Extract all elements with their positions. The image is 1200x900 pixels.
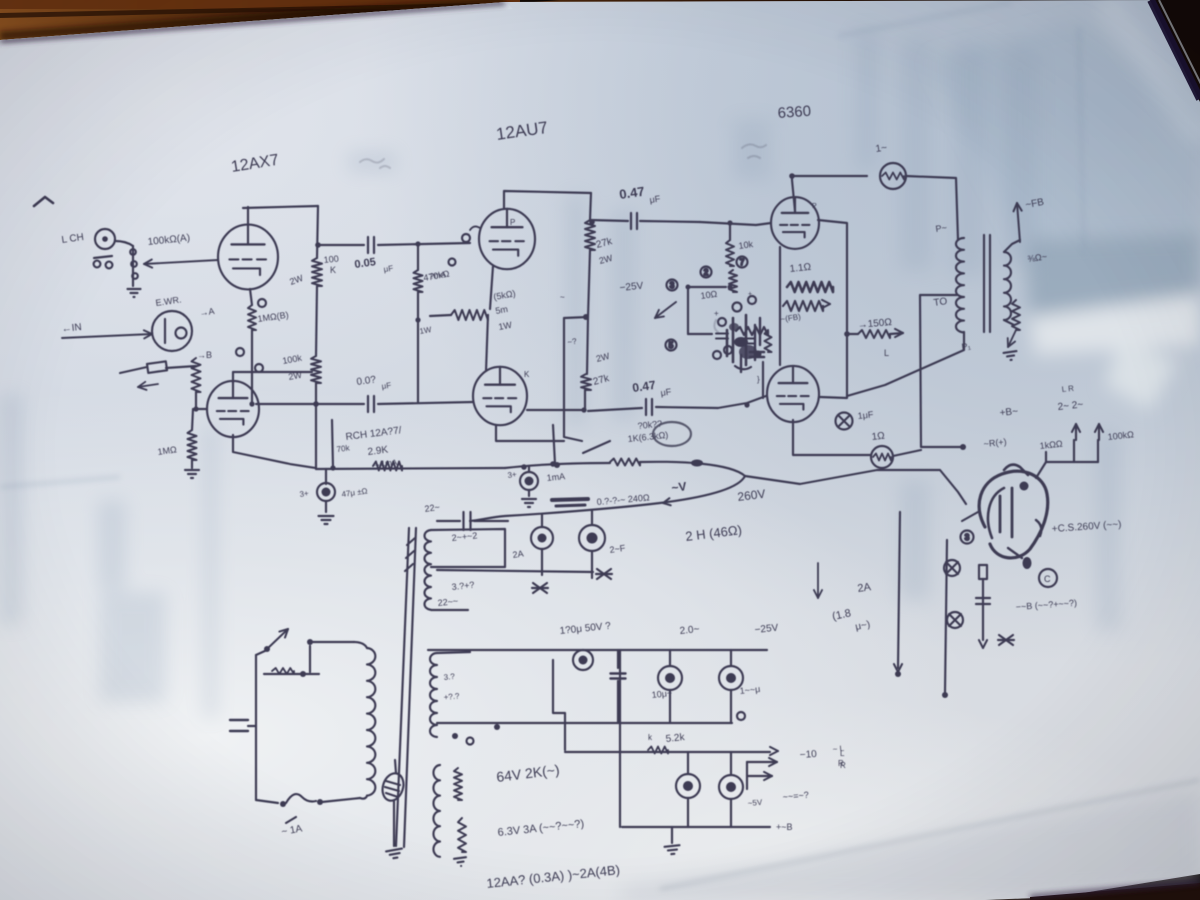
bus resistor 2.9k bbox=[373, 462, 402, 471]
volume pot VR1 100k(A) leg bbox=[132, 246, 134, 286]
winding W3 bbox=[433, 765, 440, 857]
grid wire V3a bbox=[700, 222, 771, 225]
PT left wire bbox=[255, 655, 257, 800]
circled 7 bbox=[737, 257, 748, 268]
diode D2 bbox=[947, 612, 963, 628]
lamp A drop bbox=[541, 549, 543, 575]
speaker ground arrow bbox=[1008, 330, 1016, 347]
bus junction from V1 cathode bbox=[332, 420, 333, 468]
frame lower stub bbox=[688, 333, 712, 335]
PT primary coil bbox=[367, 648, 375, 796]
faint scribble C bbox=[714, 320, 718, 332]
cluster drop to grid wire bbox=[762, 362, 764, 398]
heater lamp A bbox=[531, 527, 553, 549]
OPT CT line bbox=[920, 295, 963, 447]
bypass cap CE2 bbox=[528, 466, 530, 472]
resistor R3 1M bbox=[192, 409, 193, 430]
output tap arrow bbox=[847, 333, 858, 335]
lamp F bbox=[676, 774, 700, 798]
V3a plate riser bbox=[792, 176, 795, 211]
right vertical lower bbox=[587, 317, 588, 374]
diag scribble bbox=[583, 441, 610, 453]
jack ground marks bbox=[94, 261, 101, 268]
cluster small caps bbox=[716, 333, 728, 335]
secondary top to NFB bbox=[1004, 240, 1020, 252]
circled 3 bbox=[667, 280, 678, 291]
coupling wire C1 row bbox=[318, 244, 364, 246]
V2a plate to top rail bbox=[504, 191, 591, 209]
HV lead 2 bbox=[945, 540, 947, 692]
divider top connect bbox=[727, 220, 732, 225]
V2b bottom to inner loop bbox=[496, 425, 564, 441]
PT ground bbox=[386, 849, 403, 860]
scribble pins bbox=[462, 234, 470, 242]
W3 squiggles bbox=[454, 768, 462, 800]
OPT core bbox=[983, 235, 985, 332]
circled 2 bbox=[701, 267, 712, 278]
lamp E bbox=[719, 666, 743, 690]
ground X B bbox=[596, 569, 612, 579]
arrows right pair bbox=[769, 762, 777, 766]
triode V1a 12AX7 bbox=[218, 225, 278, 290]
rail 4 bbox=[622, 826, 770, 828]
cap pair top bbox=[437, 520, 460, 522]
arrow to -25V bbox=[655, 302, 676, 318]
cluster extra strokes bbox=[759, 318, 761, 345]
rectifier tube V4 (drawn sideways) bbox=[979, 471, 1048, 558]
divider resistor 10k upper bbox=[729, 223, 731, 240]
rail4 ground bbox=[671, 827, 673, 843]
PT fuse bbox=[280, 801, 286, 807]
bypass cap CE1 bbox=[325, 469, 327, 484]
rail 2 bbox=[437, 722, 732, 724]
plate top rail bbox=[792, 175, 867, 177]
winding W2 bbox=[430, 653, 437, 737]
resistor R8 27k lower bbox=[581, 374, 591, 390]
cluster dark mass bbox=[739, 345, 757, 359]
plate resistor R7 27k bbox=[590, 193, 591, 220]
ground X A bbox=[532, 583, 548, 593]
cluster thick strokes bbox=[732, 318, 735, 362]
wire jack to pot bbox=[115, 241, 133, 246]
OPT secondary coil bbox=[1004, 252, 1011, 320]
plate resistor R5 100k (V1b) bbox=[311, 356, 321, 383]
ground X right bbox=[998, 635, 1014, 645]
V3b plate drop bbox=[793, 420, 871, 455]
diode D1 bbox=[944, 560, 960, 576]
PT inner wire bbox=[264, 673, 319, 675]
rail 3 bbox=[565, 751, 770, 753]
ground CE1 bbox=[319, 516, 334, 524]
beam tube V3a 6360 bbox=[771, 197, 819, 249]
plate resistor R4 100k bbox=[312, 258, 322, 286]
wire choke to rectifier bbox=[745, 470, 966, 504]
rail to OPT primary bbox=[906, 176, 958, 240]
lamp B stub bbox=[591, 511, 593, 525]
PT switch bbox=[264, 646, 270, 652]
ground bus bbox=[316, 468, 505, 469]
vert 620 bbox=[619, 650, 621, 827]
junction dots misc bbox=[315, 242, 321, 248]
heater wire mid bbox=[437, 570, 593, 572]
rail 1 bbox=[428, 649, 767, 651]
vertical from V2 cathode to bus bbox=[553, 425, 555, 464]
tetrode V2a 12AU7 bbox=[479, 209, 535, 269]
parasitic lamp L1 bbox=[880, 163, 906, 189]
V2b plate wire right bbox=[527, 409, 584, 411]
stray pen mark top-left bbox=[34, 197, 53, 206]
input jack J1 L-CH bbox=[95, 229, 115, 249]
beam tube V3b 6360 bbox=[767, 366, 819, 422]
W1 frame bbox=[431, 529, 505, 567]
lower coupling cap C4 0.47 bbox=[588, 408, 642, 411]
arrow down small bbox=[817, 563, 819, 598]
jog wire bbox=[553, 660, 565, 750]
V1a cathode lead + R6 1M(B) bbox=[250, 289, 252, 305]
grid resistor R2 bbox=[192, 358, 201, 392]
ink blob bbox=[1023, 557, 1032, 569]
wire jack to grid resistor bbox=[166, 366, 196, 368]
network frame bbox=[688, 287, 726, 334]
PT line cap bbox=[230, 719, 248, 721]
PT core bbox=[396, 528, 409, 846]
wire bracket to rectifier bbox=[1036, 462, 1046, 478]
cathode resistor zigzag bbox=[451, 310, 488, 320]
cathode vertical link bbox=[779, 247, 781, 365]
lower coupling wire C2 bbox=[256, 403, 364, 405]
PT bottom wire bbox=[256, 800, 278, 803]
ground CE2 bbox=[522, 499, 536, 507]
V1b plate lead bbox=[233, 372, 312, 383]
lamp G bbox=[719, 775, 743, 799]
heater arrows bracket bbox=[1045, 452, 1047, 462]
winding W1 bbox=[424, 530, 431, 610]
faint scribble A bbox=[360, 159, 390, 168]
plate supply vertical bbox=[317, 206, 318, 258]
W2 taps bbox=[452, 733, 458, 739]
circled 3 rectifier bbox=[961, 531, 974, 544]
B+ choke loop 2H bbox=[505, 463, 610, 468]
ground below R3 bbox=[185, 470, 199, 478]
lamp B drop bbox=[591, 551, 593, 578]
faint scribble B bbox=[742, 144, 766, 158]
cap column bbox=[979, 565, 987, 579]
ground below pot leg bbox=[128, 289, 141, 297]
scribble ellipse bbox=[653, 422, 691, 446]
tetrode V2b 12AU7 bbox=[473, 367, 527, 425]
RCA jack symbol bbox=[147, 361, 167, 373]
wire lamp to B rect bbox=[893, 450, 921, 456]
wire pot wiper to V1 grid bbox=[144, 260, 218, 264]
balance pot VR2 circle bbox=[152, 311, 192, 351]
feedback resistor bbox=[783, 301, 823, 311]
thick equals mark bbox=[552, 499, 588, 500]
NFB arrow bbox=[1017, 203, 1020, 242]
lamp D bbox=[658, 666, 682, 690]
screen resistor thick bbox=[787, 282, 833, 292]
divider resistor lower bbox=[729, 270, 737, 292]
HV lead 1 bbox=[898, 512, 900, 668]
triode V1b 12AX7 bbox=[207, 381, 259, 437]
V1b cathode to bus bbox=[233, 435, 316, 468]
wire to V3b grid bbox=[718, 396, 766, 408]
wire to V1b grid bbox=[196, 408, 207, 410]
circled C bbox=[1039, 569, 1057, 587]
top rail to plate resistor bbox=[243, 206, 318, 208]
ground OPT bbox=[1004, 351, 1018, 361]
wire V1a plate to top rail bbox=[247, 207, 249, 225]
lamp C bbox=[573, 650, 593, 670]
inner loop verticals bbox=[564, 317, 588, 441]
secondary load resistor bbox=[1004, 320, 1014, 325]
cathode bypass cap V3b bbox=[836, 413, 853, 430]
plate bus vertical bbox=[818, 220, 847, 398]
circled 5 bbox=[666, 340, 677, 351]
OPT primary coil bbox=[956, 238, 964, 332]
primary bottom lead bbox=[847, 332, 964, 396]
heater lamp B bbox=[579, 525, 605, 551]
cathode lamp L2 bbox=[871, 446, 893, 468]
pilot lamp PL bbox=[379, 771, 407, 804]
pin circles V1 bbox=[258, 299, 266, 307]
V2a cathode chain bbox=[490, 266, 493, 309]
coupling cap C3 0.47 bbox=[590, 220, 628, 221]
scribble near V2 grid bbox=[470, 226, 480, 230]
grid leak vertical 470k bbox=[417, 244, 419, 270]
cap stack bbox=[617, 650, 619, 668]
